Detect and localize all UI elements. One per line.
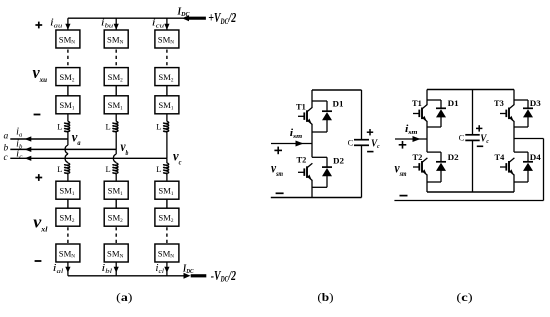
wire (c) right leg middle <box>513 122 515 153</box>
submodule SM_2 upper c <box>155 68 179 86</box>
submodule SM_1 lower a <box>56 181 80 199</box>
transistor T2 (b) <box>306 166 308 178</box>
transistor T1 (b) <box>306 110 308 122</box>
wire phase output c <box>10 157 167 159</box>
wire (b) top rail <box>312 89 362 91</box>
wire SM2-SM1 upper b <box>115 86 117 96</box>
svg-text:b: b <box>4 143 9 153</box>
svg-text:D1: D1 <box>333 98 344 108</box>
wire (c) top rail <box>427 89 514 91</box>
wire (c) T2/D2 rejoin <box>427 181 441 183</box>
dashed wire upper arm b <box>115 50 117 67</box>
submodule SM_2 upper a <box>56 68 80 86</box>
label - capacitor (b) <box>367 151 373 153</box>
wire SM1-SM2 lower a <box>67 199 69 208</box>
wire SM1 to arm inductor upper c <box>166 114 168 122</box>
wire (b) left leg upper <box>311 90 313 108</box>
svg-text:L: L <box>57 121 62 131</box>
dashed wire lower arm b <box>115 227 117 244</box>
wire (c) T3/D3 branch split <box>514 99 528 101</box>
wire SM1-SM2 lower b <box>115 199 117 208</box>
current arrow I_DC (bottom, pointing right) <box>184 273 191 279</box>
wire phase output b <box>10 148 116 150</box>
wire SM_N to bottom bus c <box>166 262 168 276</box>
svg-text:D4: D4 <box>530 152 542 162</box>
svg-text:D1: D1 <box>448 98 459 108</box>
wire node v_b to lower inductor (hops over c line) <box>115 149 117 154</box>
wire (c) capacitor branch upper <box>472 90 474 135</box>
svg-text:T2: T2 <box>413 152 423 162</box>
diode D3 (c) <box>523 107 533 109</box>
diode D4 (c) <box>523 161 533 163</box>
wire SM1-SM2 lower c <box>166 199 168 208</box>
submodule SM_2 upper b <box>104 68 128 86</box>
svg-text:a: a <box>4 132 9 142</box>
submodule SM_N upper c <box>155 30 179 48</box>
dashed wire upper arm a <box>67 50 69 67</box>
wire (c) left leg middle <box>426 122 428 153</box>
submodule SM_N upper b <box>104 30 128 48</box>
label + (lower arm polarity) <box>35 177 42 179</box>
dashed wire upper arm c <box>166 50 168 67</box>
submodule SM_1 upper a <box>56 96 80 114</box>
wire (c) capacitor branch lower <box>472 141 474 192</box>
wire (b) left leg lower <box>311 180 313 197</box>
transistor T3 (c) <box>508 108 510 120</box>
label - input (c) <box>400 195 408 197</box>
svg-text:C: C <box>459 133 465 143</box>
svg-text:T4: T4 <box>495 152 506 162</box>
svg-text:T3: T3 <box>494 98 504 108</box>
wire (c) T1/D1 rejoin <box>427 126 441 128</box>
submodule SM_2 lower b <box>104 208 128 226</box>
label - capacitor (c) <box>477 145 483 147</box>
svg-text:L: L <box>57 164 62 174</box>
wire (b) T1/D1 rejoin <box>312 131 327 133</box>
wire (b) T2/D2 branch split <box>312 156 327 158</box>
wire SM_N to bottom bus a <box>67 262 69 276</box>
svg-text:(b): (b) <box>317 290 333 304</box>
svg-text:L: L <box>156 121 161 131</box>
wire phase a upper-arm feed from DC bus <box>67 18 69 30</box>
wire inductor to node v_b <box>115 132 117 149</box>
svg-text:T1: T1 <box>412 98 422 108</box>
submodule SM_2 lower c <box>155 208 179 226</box>
diode D2 (b) <box>322 166 332 168</box>
wire (b) bottom rail <box>271 197 362 199</box>
wire (c) T2/D2 branch split <box>427 151 441 153</box>
wire inductor to node v_a <box>67 132 69 139</box>
svg-text:D2: D2 <box>333 156 344 166</box>
wire (c) input i_sm <box>395 138 427 140</box>
wire (b) T2/D2 rejoin <box>312 186 327 188</box>
svg-text:C: C <box>348 138 354 148</box>
wire SM_N to bottom bus b <box>115 262 117 276</box>
label + capacitor (b) <box>367 131 373 133</box>
label + input (b) <box>274 149 282 151</box>
transistor T2 (c) <box>421 161 423 173</box>
submodule SM_2 lower a <box>56 208 80 226</box>
wire inductor to node v_c <box>166 132 168 158</box>
wire node v_a to lower inductor (hops over b,c lines) <box>67 139 69 145</box>
inductor L lower arm b <box>113 163 118 174</box>
current arrow I_DC (top, pointing left) <box>182 15 189 21</box>
label + input (c) <box>399 144 407 146</box>
inductor L upper arm a <box>65 121 70 132</box>
dashed wire lower arm c <box>166 227 168 244</box>
wire phase c upper-arm feed from DC bus <box>166 18 168 30</box>
submodule SM_N upper a <box>56 30 80 48</box>
svg-text:L: L <box>106 164 111 174</box>
wire (c) bottom rail <box>427 191 514 193</box>
diode D1 (c) <box>436 107 446 109</box>
label - (lower arm polarity) <box>35 260 42 262</box>
wire (b) left leg middle <box>311 124 313 157</box>
wire (b) input i_sm <box>271 143 312 145</box>
svg-text:D3: D3 <box>530 98 541 108</box>
capacitor C (b) <box>354 139 369 141</box>
wire (c) right leg lower <box>513 175 515 192</box>
wire phase b upper-arm feed from DC bus <box>115 18 117 30</box>
wire SM1 to arm inductor upper a <box>67 114 69 122</box>
inductor L upper arm c <box>164 121 169 132</box>
transistor T1 (c) <box>421 108 423 120</box>
diode D2 (c) <box>436 161 446 163</box>
submodule SM_N lower b <box>104 244 128 262</box>
label - input (b) <box>276 192 284 194</box>
wire (c) right leg upper <box>513 90 515 105</box>
submodule SM_1 lower b <box>104 181 128 199</box>
wire (b) T1/D1 branch split <box>312 100 327 102</box>
label + capacitor (c) <box>476 127 482 129</box>
wire (c) T4/D4 rejoin <box>514 181 528 183</box>
svg-text:D2: D2 <box>448 152 459 162</box>
submodule SM_1 upper b <box>104 96 128 114</box>
inductor L lower arm a <box>65 163 70 174</box>
svg-text:T1: T1 <box>296 101 306 111</box>
svg-text:L: L <box>156 164 161 174</box>
wire (c) output bottom <box>394 200 543 202</box>
capacitor C (c) <box>465 134 479 136</box>
wire (c) left leg lower <box>426 175 428 192</box>
wire inductor to SM1 lower a <box>67 174 69 182</box>
label + (upper arm polarity) <box>35 24 42 26</box>
wire (c) left leg upper <box>426 90 428 105</box>
wire (c) T4/D4 branch split <box>514 151 528 153</box>
wire SM2-SM1 upper a <box>67 86 69 96</box>
svg-text:(c): (c) <box>456 290 472 304</box>
submodule SM_N lower c <box>155 244 179 262</box>
diode D1 (b) <box>322 110 332 112</box>
svg-text:(a): (a) <box>116 290 132 304</box>
dashed wire lower arm a <box>67 227 69 244</box>
wire (b) right leg lower <box>361 146 363 198</box>
inductor L lower arm c <box>164 163 169 174</box>
svg-text:L: L <box>106 121 111 131</box>
submodule SM_1 lower c <box>155 181 179 199</box>
wire phase output a <box>10 138 68 140</box>
wire inductor to SM1 lower c <box>166 174 168 182</box>
wire (c) output loop right <box>514 138 544 140</box>
submodule SM_1 upper c <box>155 96 179 114</box>
wire (c) T1/D1 branch split <box>427 99 441 101</box>
wire SM2-SM1 upper c <box>166 86 168 96</box>
wire (b) right leg upper <box>361 90 363 139</box>
wire inductor to SM1 lower b <box>115 174 117 182</box>
transistor T4 (c) <box>508 161 510 173</box>
wire bottom DC bus <box>68 275 184 277</box>
wire top DC bus <box>68 17 184 19</box>
inductor L upper arm b <box>113 121 118 132</box>
wire node v_c to lower inductor <box>166 158 168 163</box>
submodule SM_N lower a <box>56 244 80 262</box>
label - (upper arm polarity) <box>34 114 41 116</box>
svg-text:T2: T2 <box>297 155 307 165</box>
wire (c) T3/D3 rejoin <box>514 126 528 128</box>
wire SM1 to arm inductor upper b <box>115 114 117 122</box>
